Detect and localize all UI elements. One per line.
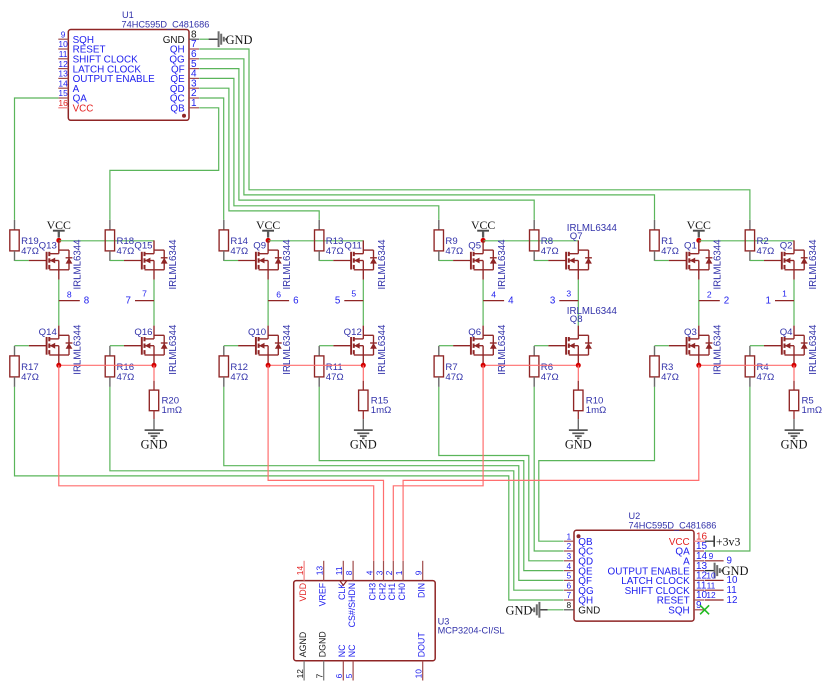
svg-text:3: 3 — [550, 295, 556, 306]
svg-text:SQH: SQH — [668, 606, 689, 617]
svg-text:6: 6 — [566, 580, 571, 590]
svg-text:15: 15 — [58, 88, 68, 98]
svg-text:1: 1 — [766, 295, 771, 306]
svg-text:9: 9 — [727, 556, 732, 567]
svg-text:IRLML6344: IRLML6344 — [73, 324, 84, 375]
svg-text:DIN: DIN — [417, 583, 427, 598]
svg-text:13: 13 — [315, 566, 325, 576]
svg-text:VCC: VCC — [687, 218, 711, 232]
svg-text:12: 12 — [727, 595, 738, 606]
svg-text:Q7: Q7 — [570, 231, 583, 242]
svg-text:4: 4 — [365, 570, 375, 575]
svg-text:VCC: VCC — [256, 218, 280, 232]
svg-text:IRLML6344: IRLML6344 — [377, 324, 388, 375]
svg-text:IRLML6344: IRLML6344 — [808, 239, 819, 290]
svg-text:CLK: CLK — [337, 583, 347, 600]
svg-text:8: 8 — [344, 570, 354, 575]
svg-text:Q1: Q1 — [684, 240, 697, 251]
svg-text:IRLML6344: IRLML6344 — [713, 239, 724, 290]
svg-text:4: 4 — [566, 561, 571, 571]
svg-text:8: 8 — [67, 289, 72, 299]
svg-text:9: 9 — [709, 551, 714, 561]
svg-text:Q9: Q9 — [253, 240, 266, 251]
svg-text:9: 9 — [414, 570, 424, 575]
svg-text:11: 11 — [707, 580, 716, 590]
svg-text:IRLML6344: IRLML6344 — [808, 324, 819, 375]
svg-text:NC: NC — [347, 644, 357, 657]
svg-text:Q16: Q16 — [134, 327, 152, 338]
svg-text:1mΩ: 1mΩ — [802, 405, 823, 416]
svg-text:CH0: CH0 — [397, 583, 407, 601]
svg-text:VREF: VREF — [318, 582, 328, 606]
svg-text:3: 3 — [374, 570, 384, 575]
svg-text:VCC: VCC — [73, 104, 94, 115]
svg-text:11: 11 — [334, 566, 344, 575]
svg-text:GND: GND — [226, 33, 253, 47]
svg-text:6: 6 — [276, 289, 281, 299]
svg-text:7: 7 — [142, 288, 147, 298]
svg-text:47Ω: 47Ω — [230, 372, 248, 383]
svg-text:5: 5 — [351, 288, 356, 298]
svg-text:Q6: Q6 — [468, 327, 481, 338]
svg-text:IRLML6344: IRLML6344 — [168, 239, 179, 290]
svg-text:5: 5 — [335, 295, 341, 306]
svg-text:IRLML6344: IRLML6344 — [282, 239, 293, 290]
svg-text:Q4: Q4 — [780, 327, 793, 338]
svg-text:GND: GND — [565, 437, 592, 451]
svg-text:16: 16 — [58, 98, 68, 108]
svg-text:2: 2 — [384, 570, 394, 575]
svg-text:47Ω: 47Ω — [541, 372, 559, 383]
svg-text:CH3: CH3 — [368, 583, 378, 601]
svg-text:13: 13 — [58, 69, 68, 79]
svg-text:10: 10 — [58, 39, 68, 49]
svg-text:Q14: Q14 — [39, 327, 58, 338]
svg-text:47Ω: 47Ω — [445, 246, 463, 257]
svg-text:12: 12 — [58, 59, 68, 69]
svg-text:AGND: AGND — [298, 632, 308, 657]
svg-text:QB: QB — [170, 104, 185, 115]
svg-text:GND: GND — [578, 606, 600, 617]
svg-text:1mΩ: 1mΩ — [586, 405, 607, 416]
svg-text:47Ω: 47Ω — [326, 372, 344, 383]
svg-text:Q13: Q13 — [39, 240, 57, 251]
svg-text:IRLML6344: IRLML6344 — [73, 239, 84, 290]
svg-text:OUTPUT ENABLE: OUTPUT ENABLE — [73, 74, 156, 85]
svg-text:47Ω: 47Ω — [21, 372, 39, 383]
svg-text:+3v3: +3v3 — [716, 534, 740, 548]
svg-text:MCP3204-CI/SL: MCP3204-CI/SL — [438, 625, 505, 635]
svg-text:47Ω: 47Ω — [445, 372, 463, 383]
svg-text:1mΩ: 1mΩ — [162, 405, 183, 416]
svg-text:47Ω: 47Ω — [117, 246, 135, 257]
svg-text:47Ω: 47Ω — [661, 246, 679, 257]
svg-text:DGND: DGND — [318, 631, 328, 657]
svg-text:12: 12 — [295, 669, 305, 679]
svg-text:47Ω: 47Ω — [117, 372, 135, 383]
svg-text:Q12: Q12 — [344, 327, 362, 338]
svg-text:Q15: Q15 — [134, 240, 152, 251]
svg-text:1: 1 — [394, 570, 404, 575]
svg-text:47Ω: 47Ω — [541, 246, 559, 257]
svg-text:4: 4 — [508, 295, 514, 306]
svg-text:IRLML6344: IRLML6344 — [377, 239, 388, 290]
svg-text:74HC595D_C481686: 74HC595D_C481686 — [122, 19, 210, 29]
svg-text:47Ω: 47Ω — [757, 246, 775, 257]
svg-text:VCC: VCC — [471, 218, 495, 232]
svg-text:Q2: Q2 — [780, 240, 793, 251]
svg-text:Q3: Q3 — [684, 327, 697, 338]
svg-text:IRLML6344: IRLML6344 — [497, 324, 508, 375]
svg-text:3: 3 — [566, 288, 571, 298]
svg-text:1mΩ: 1mΩ — [371, 405, 392, 416]
svg-text:7: 7 — [566, 590, 571, 600]
svg-text:NC: NC — [337, 644, 347, 657]
svg-text:2: 2 — [566, 541, 571, 551]
svg-text:7: 7 — [315, 673, 325, 678]
svg-text:1: 1 — [566, 531, 571, 541]
svg-text:5: 5 — [344, 673, 354, 678]
svg-text:47Ω: 47Ω — [757, 372, 775, 383]
svg-text:4: 4 — [491, 289, 496, 299]
svg-text:VDD: VDD — [298, 583, 308, 602]
svg-text:47Ω: 47Ω — [230, 246, 248, 257]
svg-text:CS#/SHDN: CS#/SHDN — [347, 583, 357, 627]
svg-text:47Ω: 47Ω — [21, 246, 39, 257]
svg-text:14: 14 — [58, 78, 68, 88]
svg-text:Q8: Q8 — [570, 314, 583, 325]
svg-text:47Ω: 47Ω — [326, 246, 344, 257]
svg-text:7: 7 — [126, 295, 131, 306]
svg-text:1: 1 — [191, 98, 197, 109]
svg-text:47Ω: 47Ω — [661, 372, 679, 383]
svg-text:8: 8 — [566, 600, 571, 610]
svg-text:Q11: Q11 — [344, 240, 361, 251]
svg-text:GND: GND — [506, 603, 533, 617]
svg-text:6: 6 — [293, 295, 299, 306]
svg-text:Q5: Q5 — [468, 240, 481, 251]
svg-text:GND: GND — [350, 437, 377, 451]
svg-text:2: 2 — [707, 289, 712, 299]
svg-text:1: 1 — [782, 288, 787, 298]
svg-text:9: 9 — [61, 29, 66, 39]
svg-text:8: 8 — [84, 295, 90, 306]
svg-text:10: 10 — [706, 571, 716, 581]
svg-text:IRLML6344: IRLML6344 — [713, 324, 724, 375]
svg-text:GND: GND — [141, 437, 168, 451]
svg-text:3: 3 — [566, 551, 571, 561]
svg-text:2: 2 — [724, 295, 729, 306]
svg-text:CH2: CH2 — [377, 583, 387, 601]
svg-text:IRLML6344: IRLML6344 — [282, 324, 293, 375]
svg-text:5: 5 — [566, 571, 571, 581]
svg-text:Q10: Q10 — [248, 327, 266, 338]
svg-text:6: 6 — [334, 673, 344, 678]
svg-text:GND: GND — [781, 437, 808, 451]
svg-text:DOUT: DOUT — [417, 632, 427, 658]
svg-text:14: 14 — [295, 566, 305, 576]
svg-text:10: 10 — [414, 669, 424, 679]
svg-text:CH1: CH1 — [387, 583, 397, 601]
svg-text:11: 11 — [59, 49, 68, 59]
svg-text:74HC595D_C481686: 74HC595D_C481686 — [629, 520, 717, 530]
svg-text:VCC: VCC — [47, 218, 71, 232]
svg-text:12: 12 — [706, 590, 716, 600]
svg-text:IRLML6344: IRLML6344 — [497, 239, 508, 290]
svg-text:IRLML6344: IRLML6344 — [168, 324, 179, 375]
